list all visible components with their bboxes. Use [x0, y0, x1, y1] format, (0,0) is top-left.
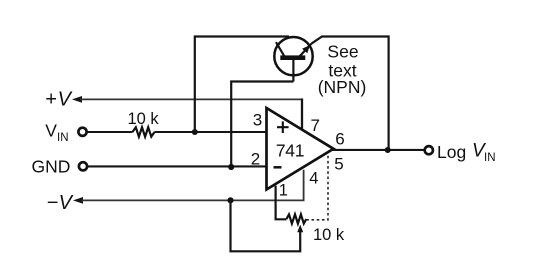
wire -V rail to pin4 — [81, 170, 304, 201]
wire pin7 supply drop — [301, 98, 303, 130]
resistor R1 — [133, 127, 155, 136]
terminal GND — [79, 162, 87, 170]
wiper arrow R2 — [297, 225, 303, 233]
junction node pin3 — [192, 129, 198, 135]
junction node -V/wiper — [227, 197, 233, 203]
wire Q1 base to ground rail — [231, 82, 293, 167]
svg-text:10 k: 10 k — [128, 110, 160, 128]
wire pin1 to R2 — [276, 186, 287, 220]
terminal VIN — [78, 128, 86, 136]
wire Q1 emitter to output — [311, 37, 388, 151]
svg-text:6: 6 — [335, 130, 344, 149]
wire R2 to pin5 (dashed) — [306, 153, 328, 220]
svg-text:Log: Log — [437, 142, 466, 162]
wire feedback to Q1 collector — [195, 37, 289, 133]
svg-text:−V: −V — [47, 192, 74, 214]
wire op-amp output — [332, 149, 425, 151]
junction node GND/base — [228, 164, 234, 170]
svg-text:(NPN): (NPN) — [318, 77, 367, 97]
svg-text:3: 3 — [253, 111, 262, 130]
svg-text:IN: IN — [484, 152, 496, 164]
svg-text:+V: +V — [45, 89, 73, 111]
arrow -V rail — [73, 197, 83, 204]
svg-text:741: 741 — [276, 141, 304, 161]
wire +V rail — [80, 98, 302, 100]
svg-text:V: V — [45, 121, 57, 141]
terminal Log VIN — [425, 146, 433, 154]
potentiometer R2 — [287, 214, 307, 223]
wire VIN to R1 — [87, 131, 133, 133]
op-amp U1 741 — [267, 108, 334, 190]
svg-text:5: 5 — [334, 155, 343, 174]
transistor Q1 — [274, 37, 312, 82]
junction node output/feedback — [385, 147, 391, 153]
svg-text:2: 2 — [251, 149, 260, 168]
wire GND to pin2 — [87, 165, 266, 167]
svg-text:4: 4 — [309, 170, 318, 188]
arrow +V rail — [72, 96, 82, 103]
svg-text:10 k: 10 k — [313, 226, 345, 244]
wire wiper return — [231, 200, 301, 251]
wire R1 to pin3 — [155, 131, 267, 133]
svg-text:7: 7 — [310, 116, 319, 135]
svg-text:1: 1 — [279, 181, 288, 199]
svg-text:See: See — [327, 41, 358, 61]
svg-text:GND: GND — [32, 157, 71, 177]
svg-text:IN: IN — [57, 132, 69, 144]
